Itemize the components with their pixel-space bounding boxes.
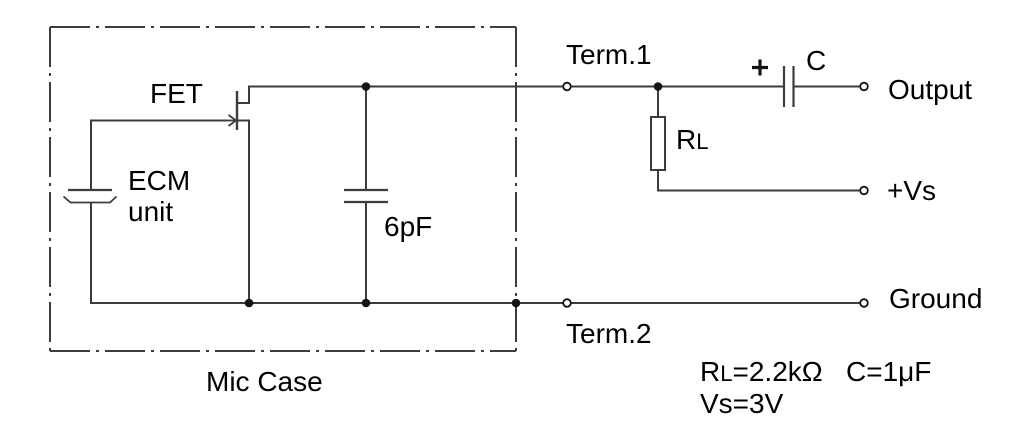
junction: ground rail at case boundary bbox=[512, 299, 521, 308]
wire: FET drain lead up to top rail bbox=[237, 87, 249, 104]
capacitor C: right plate bbox=[792, 66, 794, 107]
svg-text:C: C bbox=[806, 45, 826, 76]
svg-text:Term.1: Term.1 bbox=[566, 39, 652, 70]
resistor RL body bbox=[651, 117, 665, 170]
enclosure: Mic Case dash-dot boundary (left edge) bbox=[49, 27, 51, 351]
terminal: Output open circle bbox=[860, 83, 868, 91]
resistor RL: top lead wire from Term.1 node bbox=[657, 87, 659, 118]
svg-text:Term.2: Term.2 bbox=[566, 318, 652, 349]
junction: top rail at RL (Term.1 node) bbox=[654, 82, 663, 91]
capacitor 6pF: bottom plate bbox=[344, 201, 388, 203]
capacitor C: left (+) plate bbox=[783, 66, 785, 107]
svg-text:C=1μF: C=1μF bbox=[846, 356, 931, 387]
svg-text:ECM: ECM bbox=[128, 165, 190, 196]
wire: ground rail from ECM to Ground terminal bbox=[90, 302, 864, 304]
svg-text:RL=2.2kΩ: RL=2.2kΩ bbox=[700, 356, 823, 387]
wire: RL bottom lead down and right to +Vs terminal bbox=[658, 170, 864, 191]
wire: ECM bottom lead down to ground rail bbox=[90, 203, 92, 304]
svg-text:Vs=3V: Vs=3V bbox=[700, 388, 784, 419]
ECM capsule electret element: top plate bbox=[68, 189, 112, 191]
junction: ground rail at 6pF bbox=[362, 299, 371, 308]
svg-text:Ground: Ground bbox=[889, 283, 982, 314]
ECM capsule electret element: lower cup plate bbox=[64, 197, 117, 203]
FET gate arrowhead bbox=[229, 115, 237, 126]
terminal: Ground open circle bbox=[860, 299, 868, 307]
svg-text:6pF: 6pF bbox=[384, 211, 432, 242]
svg-text:FET: FET bbox=[150, 78, 203, 109]
junction: top rail at 6pF bbox=[362, 82, 371, 91]
transistor FET: channel bar bbox=[236, 91, 238, 130]
wire: FET source lead down to ground rail bbox=[237, 121, 249, 304]
svg-text:Output: Output bbox=[888, 74, 972, 105]
enclosure: Mic Case dash-dot boundary (right edge) bbox=[515, 27, 517, 351]
svg-text:Mic Case: Mic Case bbox=[206, 366, 323, 397]
wire: top rail from FET drain to capacitor C bbox=[248, 86, 784, 88]
polarity mark + for capacitor C bbox=[752, 60, 768, 76]
svg-text:unit: unit bbox=[128, 196, 173, 227]
capacitor 6pF: top lead wire bbox=[365, 87, 367, 191]
terminal: +Vs open circle bbox=[860, 187, 868, 195]
enclosure: Mic Case dash-dot boundary (bottom edge) bbox=[50, 350, 516, 352]
enclosure: Mic Case dash-dot boundary (top edge) bbox=[50, 26, 516, 28]
svg-text:RL: RL bbox=[676, 124, 708, 155]
wire: capacitor C to Output terminal bbox=[794, 86, 865, 88]
wire: gate lead tip to channel bar bbox=[227, 120, 236, 122]
svg-text:+Vs: +Vs bbox=[887, 175, 936, 206]
capacitor 6pF: top plate bbox=[344, 189, 388, 191]
terminal: Term.1 open circle bbox=[563, 83, 571, 91]
capacitor 6pF: bottom lead wire bbox=[365, 202, 367, 303]
terminal: Term.2 open circle bbox=[563, 299, 571, 307]
wire: ECM top plate up and over to FET gate bbox=[91, 121, 227, 191]
junction: ground rail at FET source bbox=[245, 299, 254, 308]
